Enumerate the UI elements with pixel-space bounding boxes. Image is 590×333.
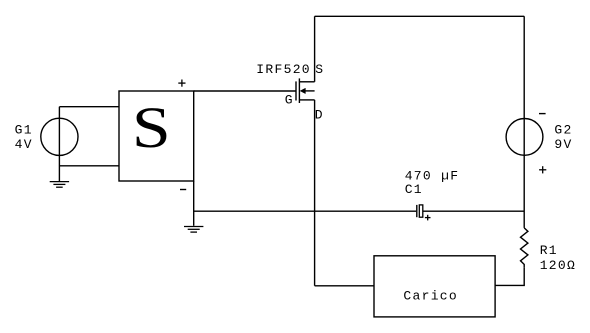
transistor Q1 channel bar [298,78,300,103]
wire top rail [315,15,525,17]
label - G2 [539,113,546,115]
ground below G1 [50,182,69,188]
wire C1 right [423,210,524,212]
svg-text:G1: G1 [15,123,33,138]
svg-text:C1: C1 [405,182,423,197]
label + C1 [425,215,431,221]
voltage source G2 [506,118,543,155]
voltage source G1 [41,118,78,155]
wire S up [314,16,316,82]
label + G2 [539,166,546,173]
svg-text:S: S [315,62,324,77]
ground below box [184,227,203,233]
wire resistor bottom [495,268,524,286]
wire G1 top to box [59,106,119,108]
svg-text:G: G [285,93,294,108]
wire gate from box [194,90,296,92]
svg-text:4V: 4V [15,137,33,152]
svg-text:120Ω: 120Ω [540,258,576,273]
wire G1 bottom to box [59,165,119,167]
wire below box minus [193,181,195,226]
load box Carico [374,256,495,317]
wire drain to load [315,285,374,287]
svg-text:R1: R1 [540,243,558,258]
wire G1 vertical [58,107,60,182]
svg-text:9V: 9V [554,137,572,152]
transistor Q1 IRF520 gate bar [295,81,297,100]
capacitor C1 left plate [416,205,418,217]
resistor R1 [521,228,528,268]
transistor Q1 drain stub [299,99,314,101]
svg-text:IRF520: IRF520 [256,62,311,77]
label + box [178,80,185,87]
wire C1 left [194,210,417,212]
svg-text:D: D [315,108,324,123]
svg-text:Carico: Carico [403,289,458,304]
svg-text:G2: G2 [554,123,572,138]
label S in box [132,95,171,159]
capacitor C1 right plate [419,205,423,217]
label - box [180,189,186,191]
wire right rail [523,16,525,228]
transistor Q1 source stub [299,81,314,83]
wire D down [314,100,316,286]
transistor Q1 body line with arrow [305,90,315,92]
svg-text:S: S [132,95,171,159]
box S (signal source) [119,91,194,181]
